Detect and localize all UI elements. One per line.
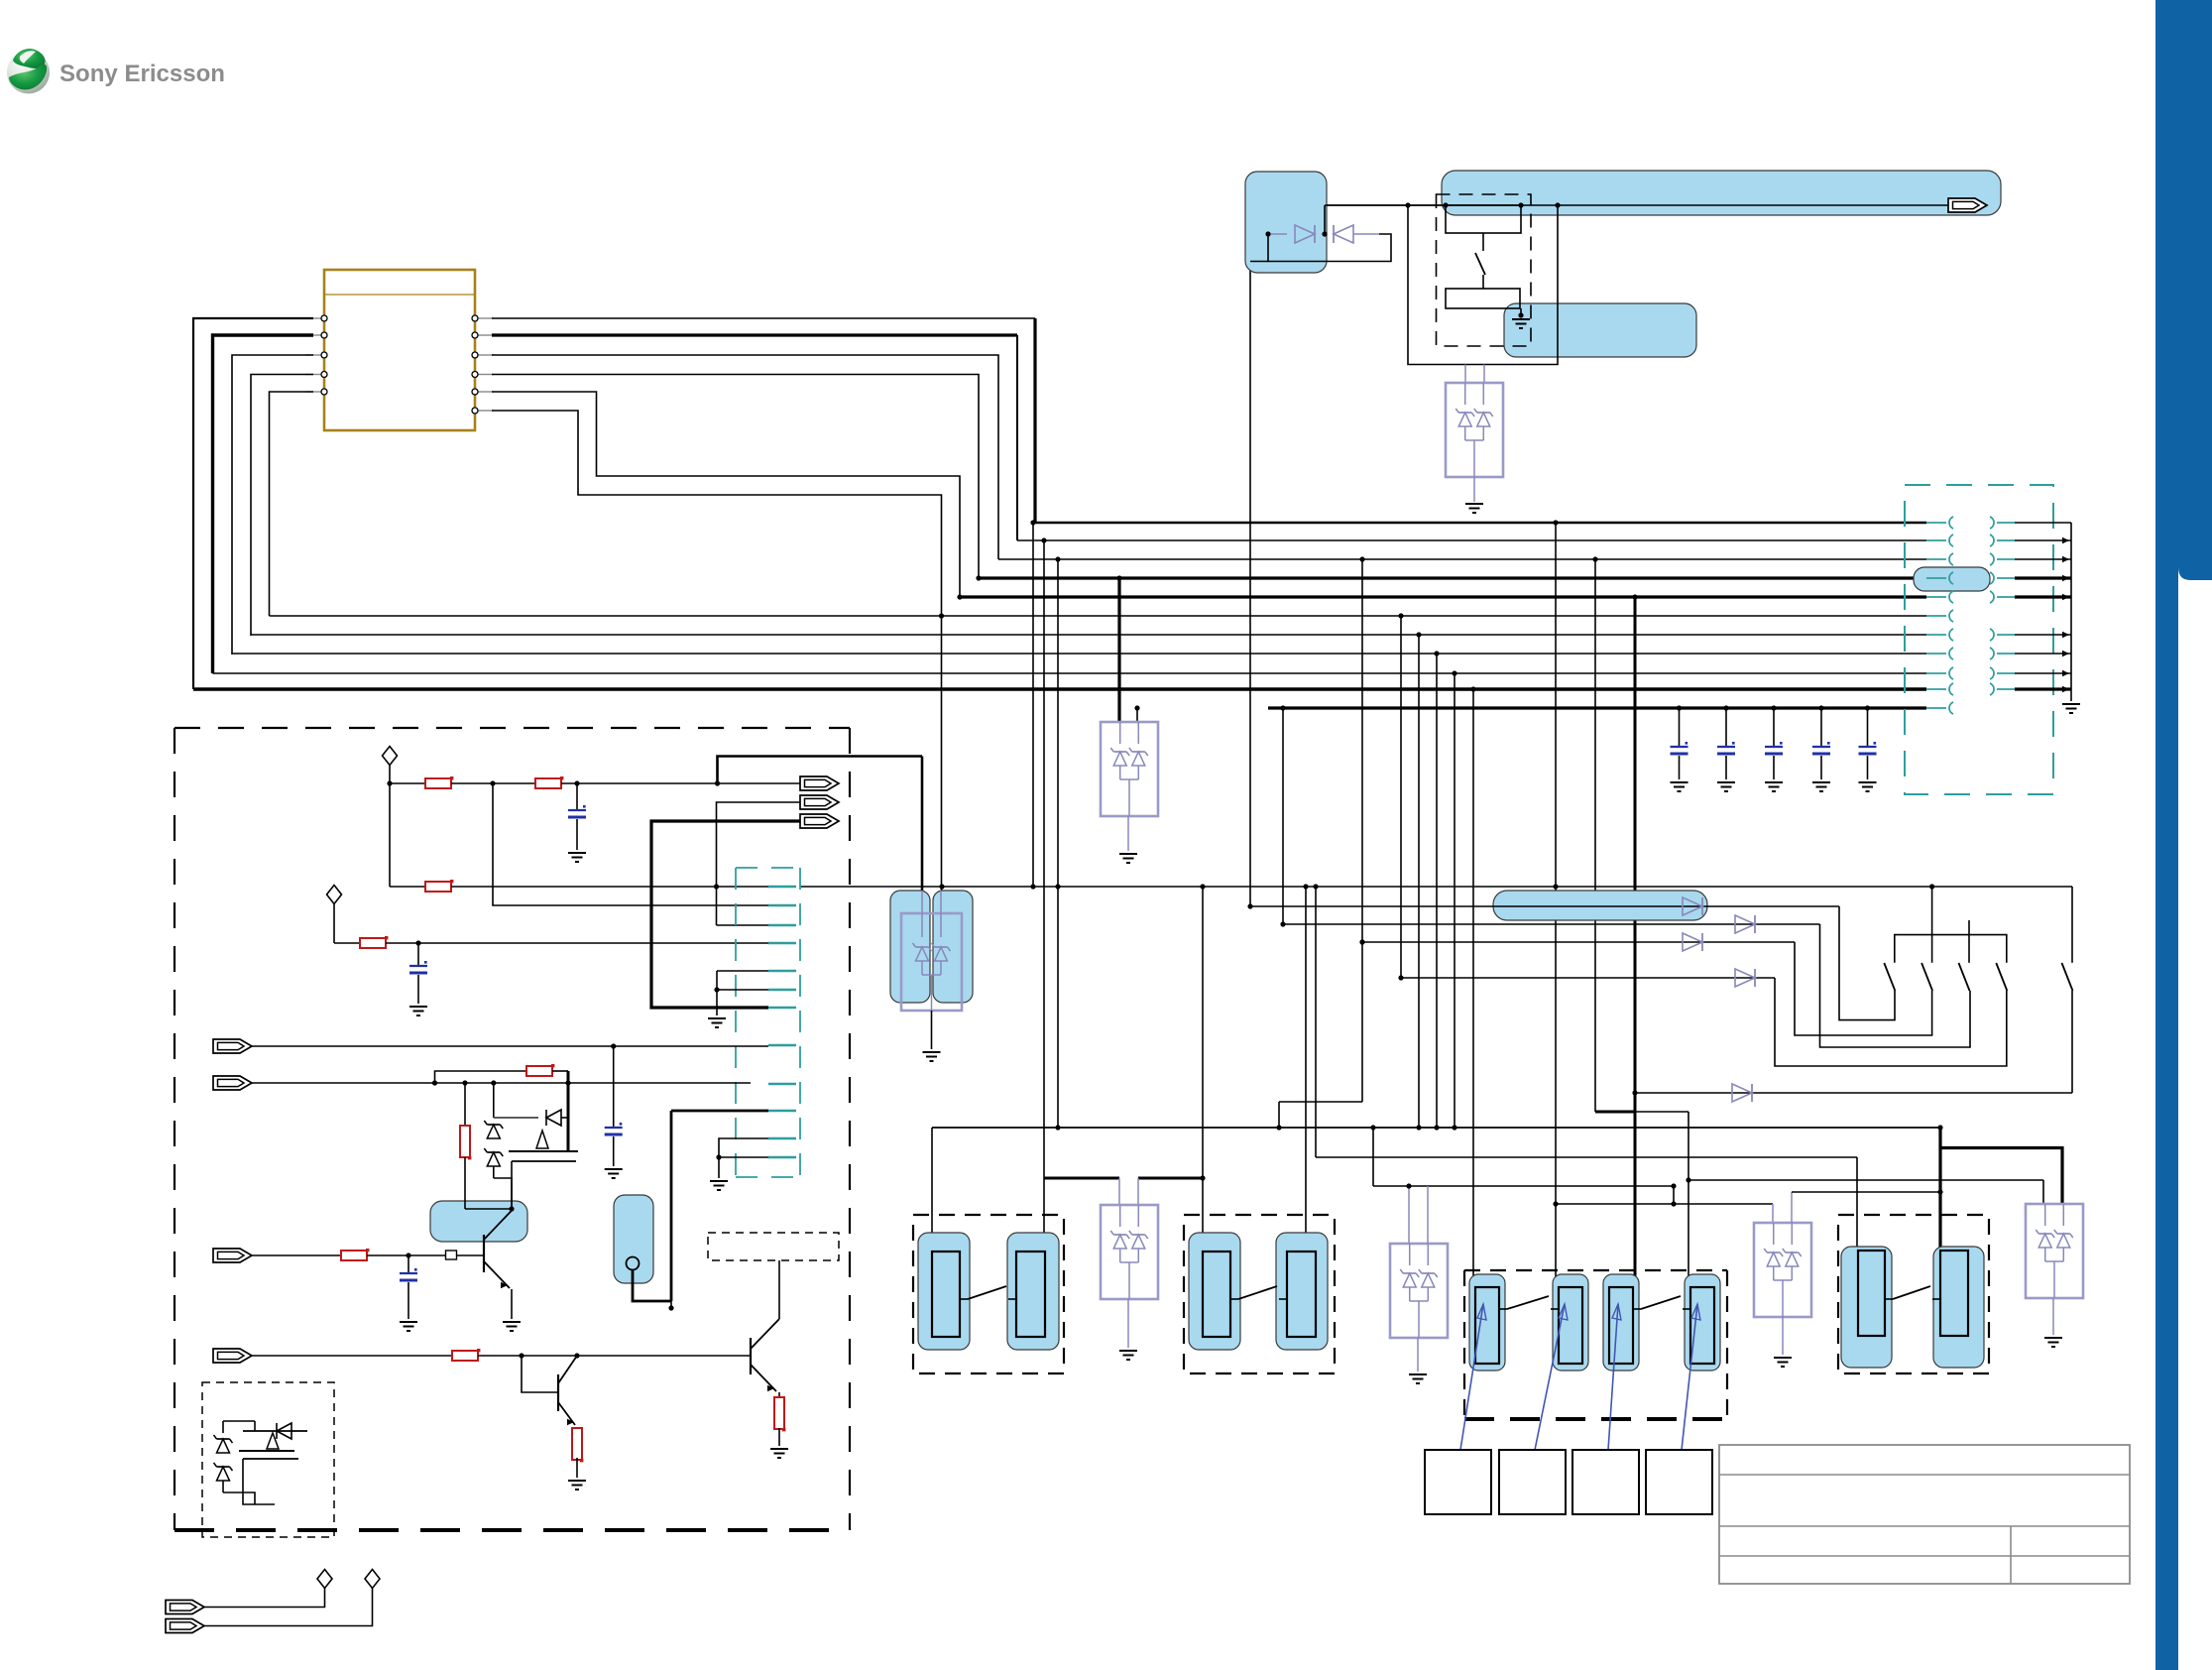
switch S2	[1230, 1298, 1238, 1300]
TVS diode pack Z4	[1390, 1244, 1448, 1338]
C3	[407, 1255, 409, 1273]
blue highlight box B3	[1504, 303, 1696, 357]
highlighted diode row D3	[1493, 891, 1707, 920]
blue box B5 circle	[614, 1195, 653, 1283]
diode D2	[1334, 225, 1353, 243]
mosfet body	[509, 1150, 578, 1152]
capacitor C8	[400, 1272, 417, 1274]
Q1 transistor	[483, 1235, 485, 1272]
switch S1	[960, 1298, 968, 1300]
blue highlight box B1	[1245, 172, 1327, 273]
mosfet drain line	[567, 1071, 570, 1151]
resistor R8	[774, 1397, 784, 1429]
ground	[568, 1481, 586, 1490]
resistor R3	[425, 882, 451, 892]
diode D4	[1735, 915, 1755, 933]
relay module M4 dashed	[1838, 1215, 1989, 1373]
wire net y=894	[800, 886, 2072, 888]
relay coil	[1446, 205, 1521, 233]
top bus	[1325, 204, 1950, 206]
highlight on connector row	[1914, 567, 1990, 591]
capacitor C1	[1671, 746, 1688, 748]
ground	[923, 1052, 941, 1061]
zener stack	[493, 1083, 495, 1118]
title table	[1719, 1445, 2130, 1584]
net arrow A9	[166, 1601, 204, 1614]
R5	[435, 1071, 527, 1083]
relay contact K1	[918, 1233, 970, 1350]
ground	[503, 1322, 521, 1331]
capacitor C2	[1717, 746, 1735, 748]
R1 R2 row	[390, 782, 425, 784]
thick top-right feeds	[1938, 1128, 1941, 1251]
resistor R5	[526, 1066, 552, 1076]
net arrow A3	[800, 814, 839, 828]
arrows A2 A3 wires	[651, 821, 800, 1008]
resistor R6	[460, 1126, 470, 1157]
Q2 right transistor	[750, 1338, 752, 1374]
TVS diode pack Z1	[1446, 383, 1503, 477]
resistor R4	[360, 938, 386, 948]
Sony Ericsson logo	[7, 49, 225, 93]
switch S5 feed	[2071, 887, 2073, 963]
ground	[2062, 704, 2080, 713]
net arrow A2	[800, 776, 839, 790]
resistor R9	[452, 1351, 478, 1361]
net node V1	[383, 747, 398, 766]
relay contact K5	[1841, 1247, 1892, 1368]
net node V3	[317, 1570, 332, 1589]
net arrow A1	[1948, 198, 1987, 212]
relay K1 dashed box	[1437, 194, 1532, 346]
rail y=1196	[1372, 1128, 1374, 1186]
thick feeds	[1044, 1177, 1119, 1180]
ground	[1774, 1358, 1792, 1367]
capacitor C6	[568, 809, 586, 811]
net arrow A8	[213, 1349, 252, 1363]
ground	[1465, 504, 1483, 513]
ground	[1671, 782, 1688, 791]
diode D6	[1401, 977, 1775, 979]
net node V4	[365, 1570, 380, 1589]
blue sidebar	[2155, 0, 2178, 1670]
C2	[417, 943, 419, 966]
diode D7	[1732, 1084, 1752, 1102]
ground	[409, 1007, 427, 1015]
ground	[1765, 782, 1783, 791]
capacitor C5	[1859, 746, 1877, 748]
resistor R1	[425, 778, 451, 788]
diode D7	[1635, 1092, 2072, 1094]
TVS diode pack Z5	[1754, 1223, 1811, 1317]
capacitor C3	[1765, 746, 1783, 748]
net arrow A4	[800, 795, 839, 809]
annotation arrows blue	[1460, 1304, 1483, 1450]
wire harness	[193, 318, 313, 689]
circle output + thick link	[627, 1257, 640, 1270]
capacitor bank C10-C14	[1679, 708, 1681, 747]
ground	[1512, 319, 1530, 328]
connector J1 green dashed box	[1905, 485, 2053, 794]
TVS diode pack Z6	[2026, 1204, 2083, 1298]
ground	[1409, 1374, 1427, 1383]
rail y=1190	[1688, 1179, 2043, 1181]
ground	[400, 1322, 417, 1331]
R3 row	[390, 886, 425, 888]
Q3 transistor	[522, 1356, 558, 1392]
IC U1	[324, 270, 475, 430]
switch module M3 dashed	[1464, 1269, 1727, 1271]
main dashed module box	[174, 728, 175, 1530]
diode D5	[1683, 933, 1702, 951]
R6	[464, 1083, 466, 1127]
branch up to TVS Z3	[718, 757, 923, 784]
blue box B4 over Q1	[430, 1201, 527, 1242]
relay contact K4	[1276, 1233, 1328, 1350]
rail y=1214	[1556, 1203, 1773, 1205]
switch blades S1-S5	[1884, 963, 1895, 991]
gate rail + diode	[494, 1117, 538, 1119]
switch top bridge	[1895, 935, 2007, 963]
diode D1	[1295, 225, 1315, 243]
ground	[568, 853, 586, 862]
ground	[1859, 782, 1877, 791]
capacitor C4	[1812, 746, 1830, 748]
net arrow A6	[213, 1076, 252, 1090]
svg-text:Sony Ericsson: Sony Ericsson	[59, 60, 225, 87]
TVS Z1	[1464, 365, 1466, 384]
net arrow A10	[166, 1619, 204, 1633]
legend boxes	[1425, 1450, 1491, 1514]
J2 grounded pins	[717, 970, 768, 972]
resistor R10	[572, 1428, 582, 1460]
ground	[1119, 854, 1137, 863]
resistor R2	[535, 778, 561, 788]
relay module M2 dashed	[1184, 1215, 1335, 1373]
diode pair D1 D2	[1268, 233, 1287, 235]
ground	[1717, 782, 1735, 791]
TVS Z3 pair highlighted	[921, 757, 924, 892]
TVS diode pack Z3	[1101, 1205, 1158, 1299]
long rail y=1137	[932, 1127, 1940, 1129]
diode D3	[1683, 897, 1702, 915]
C4 under B3	[613, 1046, 615, 1128]
switch S5	[1885, 1298, 1893, 1300]
C1	[576, 783, 578, 810]
diode D4	[1283, 923, 1820, 925]
rail y=1167	[1316, 1156, 1857, 1158]
net node V2	[327, 886, 342, 904]
loop around relay	[1408, 205, 1558, 365]
relay contact K3	[1189, 1233, 1240, 1350]
TVS diode pack Z2	[1101, 722, 1158, 816]
small dashed box with protection circuit	[202, 1382, 334, 1537]
small empty dashed rect	[708, 1233, 839, 1260]
relay module M1 dashed	[913, 1215, 1064, 1373]
resistor R7	[341, 1251, 367, 1260]
ground	[2044, 1338, 2062, 1347]
net arrow A7	[213, 1249, 252, 1262]
drop from R1 node	[493, 783, 768, 905]
switch S3 feed	[1968, 920, 1970, 963]
relay armature	[1446, 289, 1520, 308]
connector J2 green dashed	[735, 868, 737, 1177]
relay contact K6	[1933, 1247, 1984, 1368]
capacitor C7	[409, 965, 427, 967]
switch S4	[1633, 1308, 1641, 1310]
switch bottom returns	[1839, 906, 1895, 1020]
net arrow A5	[213, 1039, 252, 1053]
ground	[770, 1449, 788, 1458]
switch S3	[1499, 1308, 1507, 1310]
switch S2 feed	[1931, 887, 1933, 963]
relay contact K2	[1007, 1233, 1059, 1350]
blue highlight long bar B2	[1442, 171, 2001, 215]
ground	[605, 1169, 623, 1178]
ground	[1119, 1351, 1137, 1360]
ground	[708, 1018, 726, 1027]
diode D6	[1735, 969, 1755, 987]
diode D5	[1362, 941, 1795, 943]
ground	[710, 1181, 728, 1190]
ground	[1812, 782, 1830, 791]
capacitor C9	[605, 1127, 623, 1129]
